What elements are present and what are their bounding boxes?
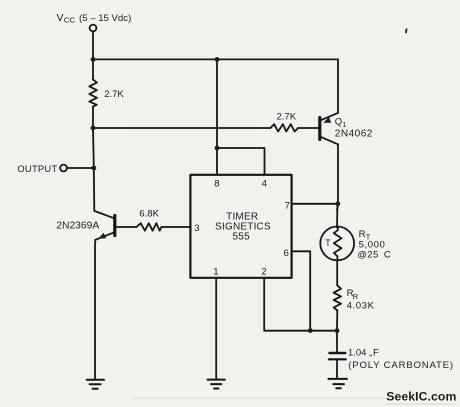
resistor RR [334,286,341,311]
speck [405,28,408,33]
thermistor RT circle [320,227,354,261]
Q2 emitter [95,232,114,240]
junction dot output [91,166,96,171]
wire Q1 collector down [337,144,338,210]
junction dot base rail [91,126,96,131]
svg-text:R: R [359,229,366,240]
junction dot pin4/pin8 [215,146,220,151]
svg-text:6.8K: 6.8K [139,209,159,220]
svg-text:T: T [325,238,331,248]
wire VCC down [92,32,94,80]
wire resistor to output node [92,107,95,168]
wire 6.8K to pin 3 [162,226,191,228]
Q1 collector [321,137,339,145]
label VCC [57,12,132,25]
svg-text:@25 C: @25 C [357,249,391,260]
wire pin 4 [217,148,265,174]
wire Q2 base [116,226,136,228]
label Q1 [335,116,373,139]
wire pin 1 to ground [215,278,217,380]
IC pin labels [194,178,290,277]
junction dot RR bottom [335,328,340,333]
svg-text:SeekIC.com: SeekIC.com [386,389,456,403]
wire pin 2 [264,278,337,331]
wire resistor to Q1 base [298,127,318,129]
wire cap to ground [336,360,338,378]
wire pin7 node to RT [336,206,338,228]
ground G2 (pin 1) [208,380,225,389]
wire top rail [93,59,338,113]
svg-text:(5 – 15 Vdc): (5 – 15 Vdc) [79,13,131,24]
resistor 6.8K [137,223,162,231]
wire RT to RR [336,261,338,286]
svg-text:V: V [57,12,64,24]
svg-text:1: 1 [342,120,346,129]
svg-text:2N2369A: 2N2369A [56,221,99,232]
svg-text:CC: CC [64,16,76,25]
OUTPUT terminal [60,165,67,172]
label RR [347,288,375,311]
transistor Q2 body [113,216,116,236]
label U1 TIMER SIGNETICS 555 [215,212,271,243]
watermark artifact line [132,397,386,398]
svg-text:1: 1 [213,266,218,277]
wire output [67,167,94,169]
thermistor RT zigzag [334,227,342,260]
wire pin 7 [292,203,339,205]
svg-text:4: 4 [262,179,268,190]
svg-text:4.03K: 4.03K [347,300,375,311]
svg-text:2N4062: 2N4062 [335,129,373,140]
junction dot pin6 bottom [308,328,313,333]
label RT [357,229,391,260]
wire Q2 emitter down [94,240,96,380]
ground G1 (left) [87,380,104,389]
svg-text:6: 6 [284,248,289,259]
Q1 emitter arrow [323,117,331,123]
wire base rail [93,127,270,129]
svg-text:2.7K: 2.7K [104,89,124,100]
VCC terminal [90,25,97,32]
svg-text:8: 8 [214,178,219,189]
svg-text:1.04 „ F: 1.04 „ F [348,347,379,358]
Q2 emitter arrow [98,233,106,239]
resistor 2.7K vertical [89,80,97,107]
transistor Q1 body [318,118,321,140]
junction dot pin8 rail [215,57,220,62]
svg-text:555: 555 [233,231,251,242]
wire output node down [94,168,115,218]
wire RR to node [336,310,338,351]
capacitor C1 plates [330,352,346,355]
watermark echo line [386,403,455,404]
svg-text:OUTPUT: OUTPUT [17,163,57,174]
wire pin 8 to VCC rail [216,59,218,174]
junction dot VCC [91,57,96,62]
svg-text:2: 2 [261,266,266,277]
label C1 value [348,347,454,371]
ground G3 (right) [328,379,347,388]
svg-text:2.7K: 2.7K [277,112,297,123]
svg-text:(POLY CARBONATE): (POLY CARBONATE) [348,360,454,371]
svg-text:3: 3 [194,223,199,234]
resistor 2.7K horizontal [270,124,298,131]
wire pin 6 [292,251,311,330]
Q1 emitter [321,113,339,120]
svg-text:Q: Q [335,116,342,127]
IC U1 555 box [190,175,291,278]
svg-text:7: 7 [285,200,290,211]
junction dot pin7 [335,201,340,206]
